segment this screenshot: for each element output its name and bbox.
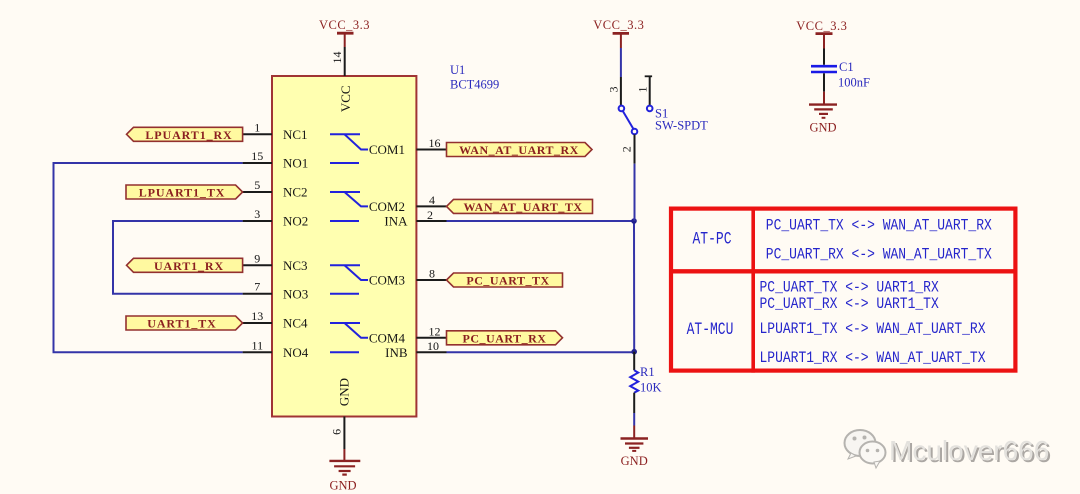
svg-text:7: 7 <box>254 280 260 294</box>
svg-text:Mculover666: Mculover666 <box>889 435 1049 466</box>
svg-text:SW-SPDT: SW-SPDT <box>655 119 708 133</box>
svg-text:COM2: COM2 <box>369 199 405 214</box>
svg-text:NC1: NC1 <box>283 127 308 142</box>
svg-text:VCC: VCC <box>338 85 353 112</box>
svg-text:VCC_3.3: VCC_3.3 <box>796 19 847 33</box>
svg-text:AT-PC: AT-PC <box>693 229 732 249</box>
svg-text:U1: U1 <box>450 63 465 77</box>
svg-text:COM3: COM3 <box>369 273 405 288</box>
svg-text:10K: 10K <box>640 381 662 395</box>
svg-text:NO4: NO4 <box>283 345 309 360</box>
svg-text:UART1_RX: UART1_RX <box>154 259 224 273</box>
svg-text:NO2: NO2 <box>283 214 308 229</box>
svg-text:12: 12 <box>429 324 441 338</box>
svg-text:13: 13 <box>251 309 263 323</box>
svg-text:GND: GND <box>809 121 836 135</box>
svg-text:LPUART1_RX: LPUART1_RX <box>145 128 232 142</box>
svg-text:VCC_3.3: VCC_3.3 <box>319 18 370 32</box>
svg-text:6: 6 <box>329 429 343 435</box>
svg-text:14: 14 <box>330 52 344 64</box>
svg-text:PC_UART_TX <-> UART1_RX: PC_UART_TX <-> UART1_RX <box>760 280 940 297</box>
svg-text:LPUART1_RX <-> WAN_AT_UART_TX: LPUART1_RX <-> WAN_AT_UART_TX <box>760 350 986 367</box>
svg-text:C1: C1 <box>839 60 854 74</box>
svg-text:1: 1 <box>254 120 260 134</box>
svg-text:INA: INA <box>384 214 408 229</box>
svg-text:UART1_TX: UART1_TX <box>147 317 216 331</box>
svg-text:COM1: COM1 <box>369 142 405 157</box>
svg-text:10: 10 <box>427 339 439 353</box>
svg-text:2: 2 <box>427 208 433 222</box>
svg-text:16: 16 <box>429 136 441 150</box>
svg-text:PC_UART_TX: PC_UART_TX <box>466 274 549 288</box>
svg-text:NC4: NC4 <box>283 316 308 331</box>
svg-text:VCC_3.3: VCC_3.3 <box>593 18 644 32</box>
svg-text:NC2: NC2 <box>283 185 308 200</box>
svg-text:R1: R1 <box>640 365 655 379</box>
svg-text:11: 11 <box>252 338 264 352</box>
svg-text:BCT4699: BCT4699 <box>450 77 499 91</box>
svg-text:4: 4 <box>429 193 435 207</box>
svg-text:GND: GND <box>329 479 356 493</box>
svg-text:9: 9 <box>254 251 260 265</box>
svg-text:INB: INB <box>385 345 408 360</box>
svg-text:3: 3 <box>254 207 260 221</box>
svg-text:5: 5 <box>254 178 260 192</box>
svg-text:GND: GND <box>621 454 648 468</box>
svg-text:2: 2 <box>620 146 634 152</box>
svg-text:15: 15 <box>251 149 263 163</box>
svg-text:PC_UART_TX <-> WAN_AT_UART_RX: PC_UART_TX <-> WAN_AT_UART_RX <box>766 217 992 234</box>
svg-text:COM4: COM4 <box>369 330 406 345</box>
svg-text:NO1: NO1 <box>283 156 308 171</box>
svg-text:GND: GND <box>337 378 352 406</box>
svg-text:WAN_AT_UART_RX: WAN_AT_UART_RX <box>459 143 579 157</box>
svg-text:LPUART1_TX: LPUART1_TX <box>139 186 226 200</box>
svg-text:WAN_AT_UART_TX: WAN_AT_UART_TX <box>463 200 582 214</box>
svg-text:NC3: NC3 <box>283 258 308 273</box>
svg-text:PC_UART_RX <-> UART1_TX: PC_UART_RX <-> UART1_TX <box>760 296 940 313</box>
svg-text:8: 8 <box>429 267 435 281</box>
svg-text:100nF: 100nF <box>838 76 870 90</box>
svg-text:NO3: NO3 <box>283 286 308 301</box>
svg-text:PC_UART_RX: PC_UART_RX <box>463 331 547 345</box>
svg-text:3: 3 <box>606 87 620 93</box>
svg-text:AT-MCU: AT-MCU <box>687 319 734 339</box>
svg-text:LPUART1_TX <-> WAN_AT_UART_RX: LPUART1_TX <-> WAN_AT_UART_RX <box>760 321 986 338</box>
svg-text:PC_UART_RX <-> WAN_AT_UART_TX: PC_UART_RX <-> WAN_AT_UART_TX <box>766 246 992 263</box>
svg-text:1: 1 <box>635 87 649 93</box>
